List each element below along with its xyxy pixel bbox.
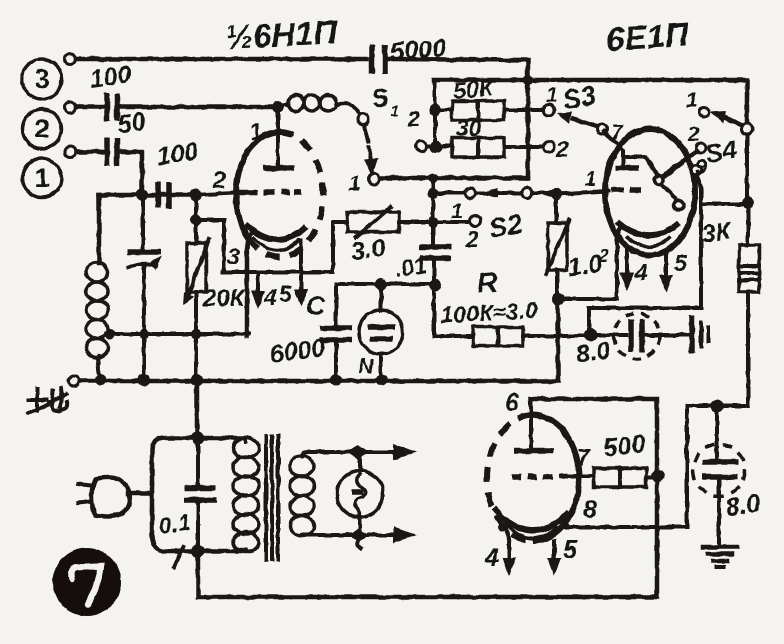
S2 contact 1 circle [470,216,481,227]
wire S4 pivot down to junction [745,134,749,203]
tube V1 anode plate [263,165,294,171]
svg-text:2: 2 [598,246,609,265]
cathode V2 wire [558,246,617,299]
S3 pivot lead into V2 plate [604,131,623,166]
heater arrow 5 V1 [294,240,308,307]
svg-text:30: 30 [456,115,482,141]
S2 arrow a [482,188,498,198]
dial lamp [337,452,383,531]
tube V3 cathode lead pin8 [566,525,568,527]
heater feed arrow bottom [369,527,417,543]
resistor 1.0^2 lead top [554,194,558,223]
svg-text:500: 500 [602,429,647,463]
transformer T1 primary winding [233,438,259,552]
resistor R lead left [434,334,473,338]
figure number 7 disc [53,548,121,616]
tube V2 anode plate [615,165,639,171]
svg-text:2: 2 [34,114,49,144]
svg-text:1: 1 [390,103,399,120]
anode lead V1 [276,107,280,167]
capacitor 0.1 [184,438,216,551]
svg-text:0.1: 0.1 [157,509,192,539]
svg-text:2: 2 [687,123,700,146]
node x433 y193 [428,188,439,199]
tube V2 cathode arc outer [617,222,679,235]
tube V3 grid dashes [512,476,568,477]
switch S1 pivot circle [358,114,369,125]
svg-text:3: 3 [227,243,240,269]
wire grid row y195 [99,193,196,198]
node x433 y222 [428,217,439,228]
variable capacitor bottom lead [142,267,146,380]
S2 arrow b [539,189,555,199]
node x196 y220 [191,215,202,226]
svg-text:6Е1П: 6Е1П [605,15,691,58]
node box left bottom [430,141,442,153]
variable capacitor C1 rotor plate with arrow [129,256,162,270]
terminal label 2 (circled) [23,110,62,149]
wire S1 contact1 to right vertical [380,176,528,181]
contact 2 circle right [544,142,555,153]
resistor 20K (box with diagonal arrow) [183,239,209,305]
heater arrow 4 V1 [251,274,265,309]
coil L2 (feedback, 3 loops) [278,95,359,113]
S3 pivot circle [597,124,607,134]
tube V2 heater arrow 5 [659,252,673,293]
20K bottom lead to ground bus [194,292,198,380]
ground bus [80,379,558,384]
svg-text:½6Н1П: ½6Н1П [224,13,339,56]
svg-text:8.0: 8.0 [574,336,612,369]
bus node c [191,374,203,386]
svg-text:4: 4 [484,544,499,572]
wire 3K down and left to node row [687,292,748,406]
svg-text:S2: S2 [487,209,525,244]
chassis ground symbol [692,315,708,353]
tube V1 cathode arc outer [245,224,307,240]
svg-text:50: 50 [116,107,148,139]
terminal 2 open circle [65,102,76,113]
wire cap50 corner down to grid node row [120,152,142,195]
terminal label 1 (circled) [23,159,62,198]
left vertical down to antenna coil [97,195,102,263]
svg-text:100: 100 [155,137,200,171]
svg-text:3.0: 3.0 [349,233,387,266]
resistor 1.0^2 lead bottom [555,270,559,299]
tube V2 cathode lead [617,229,620,246]
tube V2 grid dashes [611,187,641,193]
variable capacitor branch [141,195,145,249]
tube V3 grid lead to resistor 500 [570,474,594,478]
S4 pivot circle [742,124,753,135]
terminal label 3 (circled) [22,59,62,99]
resistor 50K lead left [435,108,452,112]
lamp bottom joint (diamond) [348,529,369,541]
resistor 3K (box with bars) [739,245,759,292]
wire to V2 grid [556,191,608,194]
tube V2 contact9 lead [696,175,701,204]
wire cap 5000 to right, corner down to S1 contact row [388,59,528,178]
switch S3 blade with arrowhead [557,112,598,127]
wire pin9 drop to node [589,204,701,334]
svg-text:50К: 50К [452,74,496,104]
coil bottom lead [98,356,101,379]
vertical x433 top [431,193,435,246]
svg-text:4: 4 [263,284,277,310]
wire T down to S2 bus [431,178,435,193]
plug lead gap joins loop [150,484,155,510]
node cross x528 y80 [523,75,533,85]
tube V2 target link [623,157,658,176]
wire 6000 row [336,282,435,286]
transformer T1 secondary winding [290,456,314,536]
antenna coil L1 (5 loops) [86,263,108,358]
tube V3 pin6 anode lead [529,399,533,449]
wire V1 bottom to resistor 3.0 [333,222,347,272]
node x435 y285 [429,279,441,291]
node junction right edge y203 [742,197,754,209]
tube V2 heater arrow 4 [620,250,634,291]
svg-text:4: 4 [634,259,648,285]
corner 6000 branch [334,284,338,325]
capacitor .01 [420,247,451,258]
svg-text:1: 1 [349,172,361,195]
resistor R lead right [523,334,592,338]
tube V2 contact 2 circle [696,143,706,153]
resistor 3.0 lead right to S2 contact [399,220,469,224]
tube V1 envelope dashed right arc [257,132,323,257]
tube V3 output envelope dashed left arc [487,415,533,541]
resistor 3.0 (box with diagonal) [347,207,399,237]
resistor 30 lead right to contact [504,145,543,149]
tube V2 ray electrode with circles [655,176,685,211]
tube V2 deflection bar [663,161,683,177]
capacitor 6000 bottom lead [334,342,338,379]
node primary top [192,432,205,445]
resistor 30 lead left [427,144,452,148]
switch S1 blade (dashed) with arrowhead [364,126,378,177]
svg-text:8: 8 [583,496,597,524]
capacitor 8.0 output electrolytic (dashed circle) [693,406,745,545]
resistor 50K lead right to contact [504,108,543,112]
tube V2 6E1P envelope [605,129,695,255]
resistor 30 (two-cell box) [452,138,504,157]
tube V3 cathode arc outer [494,508,569,531]
svg-text:2: 2 [555,136,569,162]
svg-text:R: R [476,266,500,299]
node x657 y476 [652,470,665,483]
terminal 1 open circle [65,147,76,158]
S2 throw circle b [522,188,532,198]
bus riser [556,299,561,380]
bus node b [138,374,150,386]
svg-text:1: 1 [451,200,463,223]
svg-text:5: 5 [279,281,293,307]
wire pin8 riser [566,406,687,527]
svg-text:9: 9 [695,156,707,179]
tube V3 envelope solid right arc [533,415,579,541]
node primary bottom [192,545,205,558]
ground symbol bottom right [703,547,737,567]
capacitor 8.0 electrolytic (dashed circle) [592,313,688,359]
svg-text:C: C [306,291,326,321]
svg-text:2: 2 [406,106,420,132]
terminal 3 open circle [65,54,76,65]
transformer T1 core [266,436,278,560]
svg-text:5: 5 [563,536,578,564]
svg-text:S4: S4 [703,134,740,169]
tube V3 heater arrow 5 [547,541,561,576]
bus node a [95,374,107,386]
wire grid V1 [196,193,234,195]
resistor 500 (two-cell box) [594,468,646,487]
S1 contact 2 circle [416,141,427,152]
tube V3 anode plate [514,448,553,454]
wire top bus y80 to right edge, down to S4 pivot [434,80,747,124]
tube V3 heater arrow 4 [498,522,516,576]
mains vertical x197 [195,380,200,438]
node lamp top (diamond) [347,445,369,459]
node y406 [711,400,724,413]
svg-text:3К: 3К [700,217,734,249]
svg-text:5000: 5000 [389,34,447,66]
cathode V1 vertical to tap [246,230,254,336]
V1 pin3 link wire [197,220,224,272]
node x142 y195 [136,189,148,201]
resistor 1.0^2 (box with diagonal) [546,220,569,274]
label 1.0 squared [566,246,609,282]
svg-text:3: 3 [34,64,49,94]
mains plug [78,477,152,516]
tube V1 bottom horizontal [223,270,333,274]
capacitor 5000 [372,45,385,74]
primary loop rounded rect [152,438,244,551]
neon lamp N [359,284,403,378]
svg-text:1: 1 [585,168,597,191]
node T at x433 y178 [428,173,438,183]
capacitor 50 [107,138,117,166]
node grid V2 junction [550,188,562,200]
svg-text:100К≈3.0: 100К≈3.0 [440,297,539,328]
wire terminal1 to cap 50 [76,150,103,155]
svg-text:2: 2 [212,167,226,193]
bus node d [330,374,342,386]
tube V1 cathode arc inner [253,237,300,251]
node neon top [375,278,387,290]
tick mark below 0.1 [174,547,183,567]
variable capacitor C1 top plate [127,249,161,255]
tube V1 half-6N1P envelope solid left arc [236,132,279,248]
svg-text:.01: .01 [393,252,428,282]
vertical x434 bottom [432,258,436,336]
node box left top [429,104,441,116]
svg-text:8.0: 8.0 [724,489,762,522]
S2 throw circle a [465,188,475,198]
wire junction left toward pin9 drop [701,202,748,206]
svg-text:7: 7 [577,444,591,470]
switch S4 blade with arrowhead [710,111,744,126]
coil tap wire to cathode line [106,332,249,336]
label earth character di [28,388,67,413]
wire junction to resistor 3K [746,203,750,245]
resistor 500 lead right [646,475,657,479]
S3 contact 1 circle [544,105,555,116]
secondary bottom lead [302,533,356,537]
secondary top lead [302,452,360,457]
svg-text:1: 1 [34,163,49,193]
bus node e [376,374,388,386]
capacitor 100 (b) [158,182,169,208]
node y299 [552,293,565,306]
tube V3 cathode arc inner [505,523,558,538]
wire terminal3 to cap 5000 [76,57,367,62]
resistor R 100K (two-cell box) [473,327,523,346]
vertical x196: grid node to 20K [194,195,198,243]
node anode V1 [272,101,284,113]
capacitor 100 (a) [107,93,117,121]
node y335 [585,329,598,342]
tube V1 grid dashes [238,192,301,193]
svg-text:5: 5 [674,250,688,276]
node 20K/tap cross [191,329,201,339]
svg-text:2: 2 [465,226,479,252]
heater feed arrow top [360,444,417,460]
inner box left edge [433,81,437,148]
wire cap100a to tube V1 anode node [120,105,278,110]
node x196 y195 [190,189,202,201]
tube V2 contact2 link to bar [684,151,697,160]
switch S4 contact 1 circle [699,107,709,117]
svg-text:1: 1 [546,84,558,107]
svg-text:20К: 20К [202,285,247,312]
svg-text:7: 7 [611,121,624,144]
lamp bottom tail [357,539,360,548]
wire primary bottom to B+ box [198,399,657,597]
node varcap/tap cross [139,329,149,339]
switch S1 contact 1 circle [369,174,380,185]
tap node [105,329,116,340]
svg-text:100: 100 [88,60,133,94]
tube V2 cathode arc inner [626,236,670,247]
resistor 50K (two-cell box) [452,101,504,120]
svg-text:1: 1 [686,89,698,112]
capacitor C 6000 [320,328,352,340]
svg-text:N: N [358,355,374,378]
svg-text:6: 6 [505,389,520,417]
ground terminal circle [69,376,80,387]
S2 bus wire y193 [433,191,553,195]
tube V2 contact 9 circle [691,165,701,175]
wire terminal2 to cap 100a [76,105,103,110]
